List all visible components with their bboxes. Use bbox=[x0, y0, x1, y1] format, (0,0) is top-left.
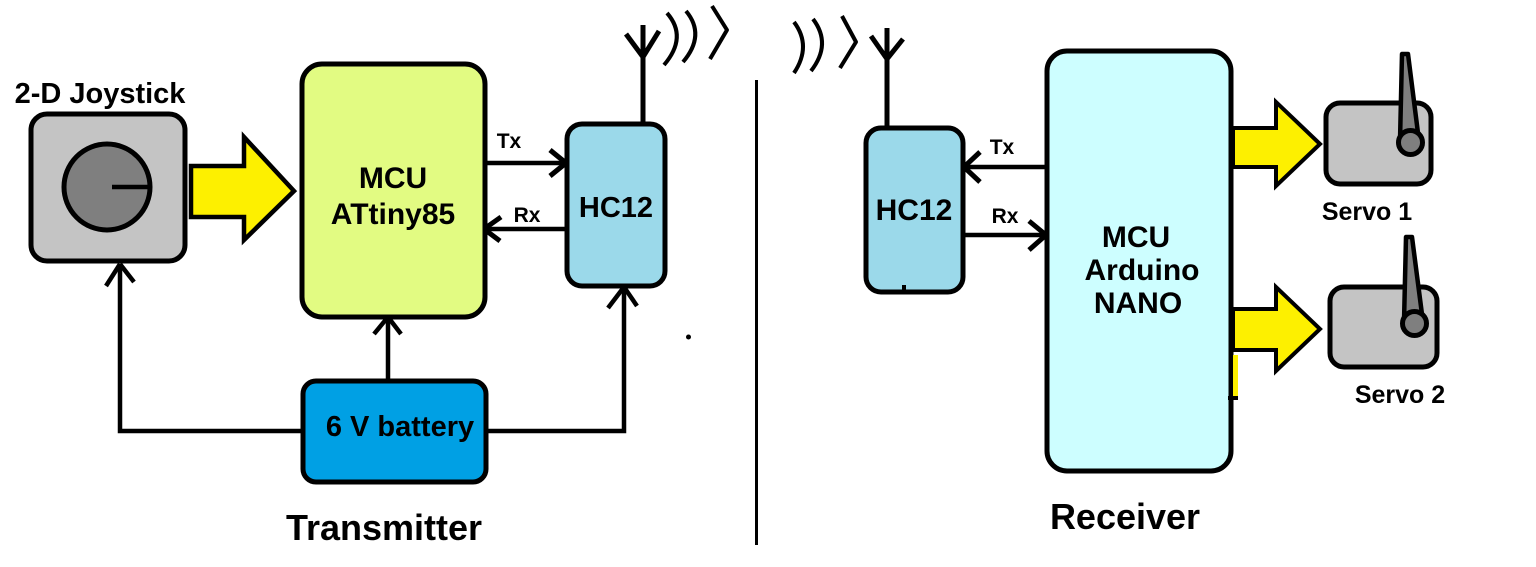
servo M2 horn hub bbox=[1403, 312, 1427, 336]
label Servo 2 bbox=[1355, 381, 1445, 409]
wire Rx HC12 to MCU bbox=[484, 217, 565, 241]
wire battery to joystick bbox=[106, 264, 301, 431]
HC12 module U3 bbox=[866, 128, 963, 292]
wire Tx NANO to HC12 bbox=[964, 152, 1045, 182]
svg-text:HC12: HC12 bbox=[579, 192, 653, 224]
RF waves left bbox=[664, 6, 727, 65]
svg-text:Rx: Rx bbox=[992, 205, 1019, 228]
svg-text:2-D Joystick: 2-D Joystick bbox=[15, 78, 187, 110]
svg-text:Transmitter: Transmitter bbox=[286, 507, 482, 548]
label Rx left bbox=[514, 204, 541, 227]
label Tx right bbox=[990, 136, 1015, 159]
servo M1 horn hub bbox=[1399, 131, 1423, 155]
svg-text:Servo 1: Servo 1 bbox=[1322, 198, 1412, 226]
label Servo 1 bbox=[1322, 198, 1412, 226]
block arrow NANO to servo 2 bbox=[1233, 287, 1320, 371]
servo M1 horn blade bbox=[1400, 54, 1419, 141]
block arrow joystick to MCU bbox=[191, 137, 294, 240]
wire battery to HC12 bbox=[488, 287, 637, 431]
wire Tx MCU to HC12 bbox=[487, 150, 566, 176]
label 2-D Joystick bbox=[15, 78, 187, 110]
servo M2 body bbox=[1330, 287, 1437, 367]
svg-text:Rx: Rx bbox=[514, 204, 541, 227]
svg-text:NANO: NANO bbox=[1094, 287, 1182, 320]
label Rx right bbox=[992, 205, 1019, 228]
svg-text:MCU: MCU bbox=[359, 162, 427, 195]
joystick JS1 knob bbox=[64, 144, 151, 230]
servo M2 horn blade bbox=[1404, 237, 1423, 322]
yellow artifact sliver bbox=[1228, 355, 1238, 400]
label Tx left bbox=[497, 130, 522, 153]
svg-text:ATtiny85: ATtiny85 bbox=[331, 198, 455, 231]
stray dot bbox=[686, 335, 691, 340]
svg-text:HC12: HC12 bbox=[876, 194, 953, 227]
wire battery to MCU bbox=[374, 317, 401, 379]
svg-text:6 V battery: 6 V battery bbox=[326, 411, 474, 443]
MCU U1 ATtiny85 bbox=[302, 64, 485, 317]
divider line bbox=[755, 80, 758, 545]
svg-text:Tx: Tx bbox=[990, 136, 1015, 159]
svg-text:Tx: Tx bbox=[497, 130, 522, 153]
antenna ANT1 bbox=[626, 25, 659, 123]
svg-text:Receiver: Receiver bbox=[1050, 496, 1200, 537]
block arrow NANO to servo 1 bbox=[1233, 102, 1320, 186]
MCU U4 Arduino NANO bbox=[1047, 51, 1231, 471]
antenna ANT2 bbox=[871, 28, 903, 126]
RF waves right bbox=[794, 16, 856, 73]
battery BT1 6V bbox=[303, 381, 486, 482]
joystick JS1 body bbox=[31, 114, 185, 261]
HC12 module U2 bbox=[567, 124, 665, 286]
svg-text:MCU: MCU bbox=[1102, 221, 1170, 254]
wire Rx HC12 to NANO bbox=[965, 221, 1046, 250]
label Receiver bbox=[1050, 496, 1200, 537]
svg-text:Servo 2: Servo 2 bbox=[1355, 381, 1445, 409]
svg-text:Arduino: Arduino bbox=[1085, 254, 1200, 287]
servo M1 body bbox=[1326, 103, 1431, 184]
label Transmitter bbox=[286, 507, 482, 548]
